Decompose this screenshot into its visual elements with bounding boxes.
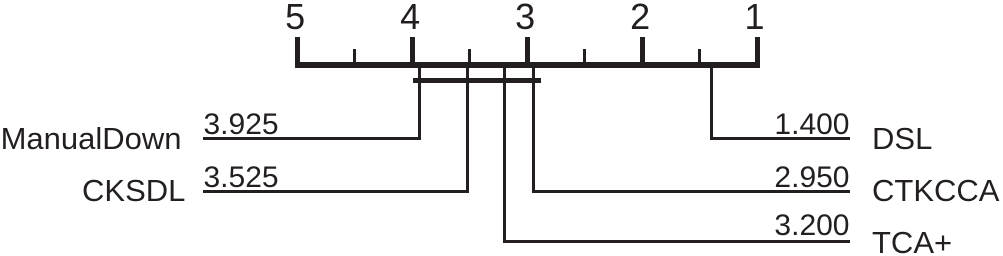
CTKCCA horizontal line <box>532 190 850 193</box>
CKSDL vertical line <box>466 64 469 193</box>
minor tick rank 3.5 <box>468 49 472 68</box>
minor tick rank 1.5 <box>698 49 702 68</box>
major tick rank 1 <box>755 37 760 68</box>
label DSL <box>872 123 932 154</box>
label ManualDown <box>1 123 182 154</box>
axis number 1 <box>725 0 785 35</box>
axis number 3 <box>495 0 555 35</box>
value 3.200 TCA+ <box>774 211 849 241</box>
CTKCCA vertical line <box>532 64 535 193</box>
value 2.950 CTKCCA <box>774 163 849 193</box>
value 3.525 CKSDL <box>204 163 279 193</box>
label CTKCCA <box>872 175 999 206</box>
minor tick rank 2.5 <box>583 49 587 68</box>
ManualDown horizontal line <box>203 137 422 140</box>
CKSDL horizontal line <box>203 190 469 193</box>
major tick rank 4 <box>410 37 415 68</box>
DSL horizontal line <box>710 137 851 140</box>
value 1.400 DSL <box>774 110 849 140</box>
major tick rank 2 <box>640 37 645 68</box>
value 3.925 ManualDown <box>204 110 279 140</box>
axis number 2 <box>610 0 670 35</box>
major tick rank 5 <box>295 37 300 68</box>
axis number 5 <box>265 0 325 35</box>
ManualDown vertical line <box>418 64 421 140</box>
label TCA+ <box>872 227 952 256</box>
axis main line <box>295 62 760 68</box>
TCA+ vertical line <box>503 64 506 243</box>
label CKSDL <box>82 175 185 206</box>
clique bar connecting ManualDown CKSDL TCA+ CTKCCA <box>413 78 541 84</box>
TCA+ horizontal line <box>503 240 850 243</box>
minor tick rank 4.5 <box>353 49 357 68</box>
DSL vertical line <box>710 64 713 140</box>
axis number 4 <box>380 0 440 35</box>
major tick rank 3 <box>525 37 530 68</box>
